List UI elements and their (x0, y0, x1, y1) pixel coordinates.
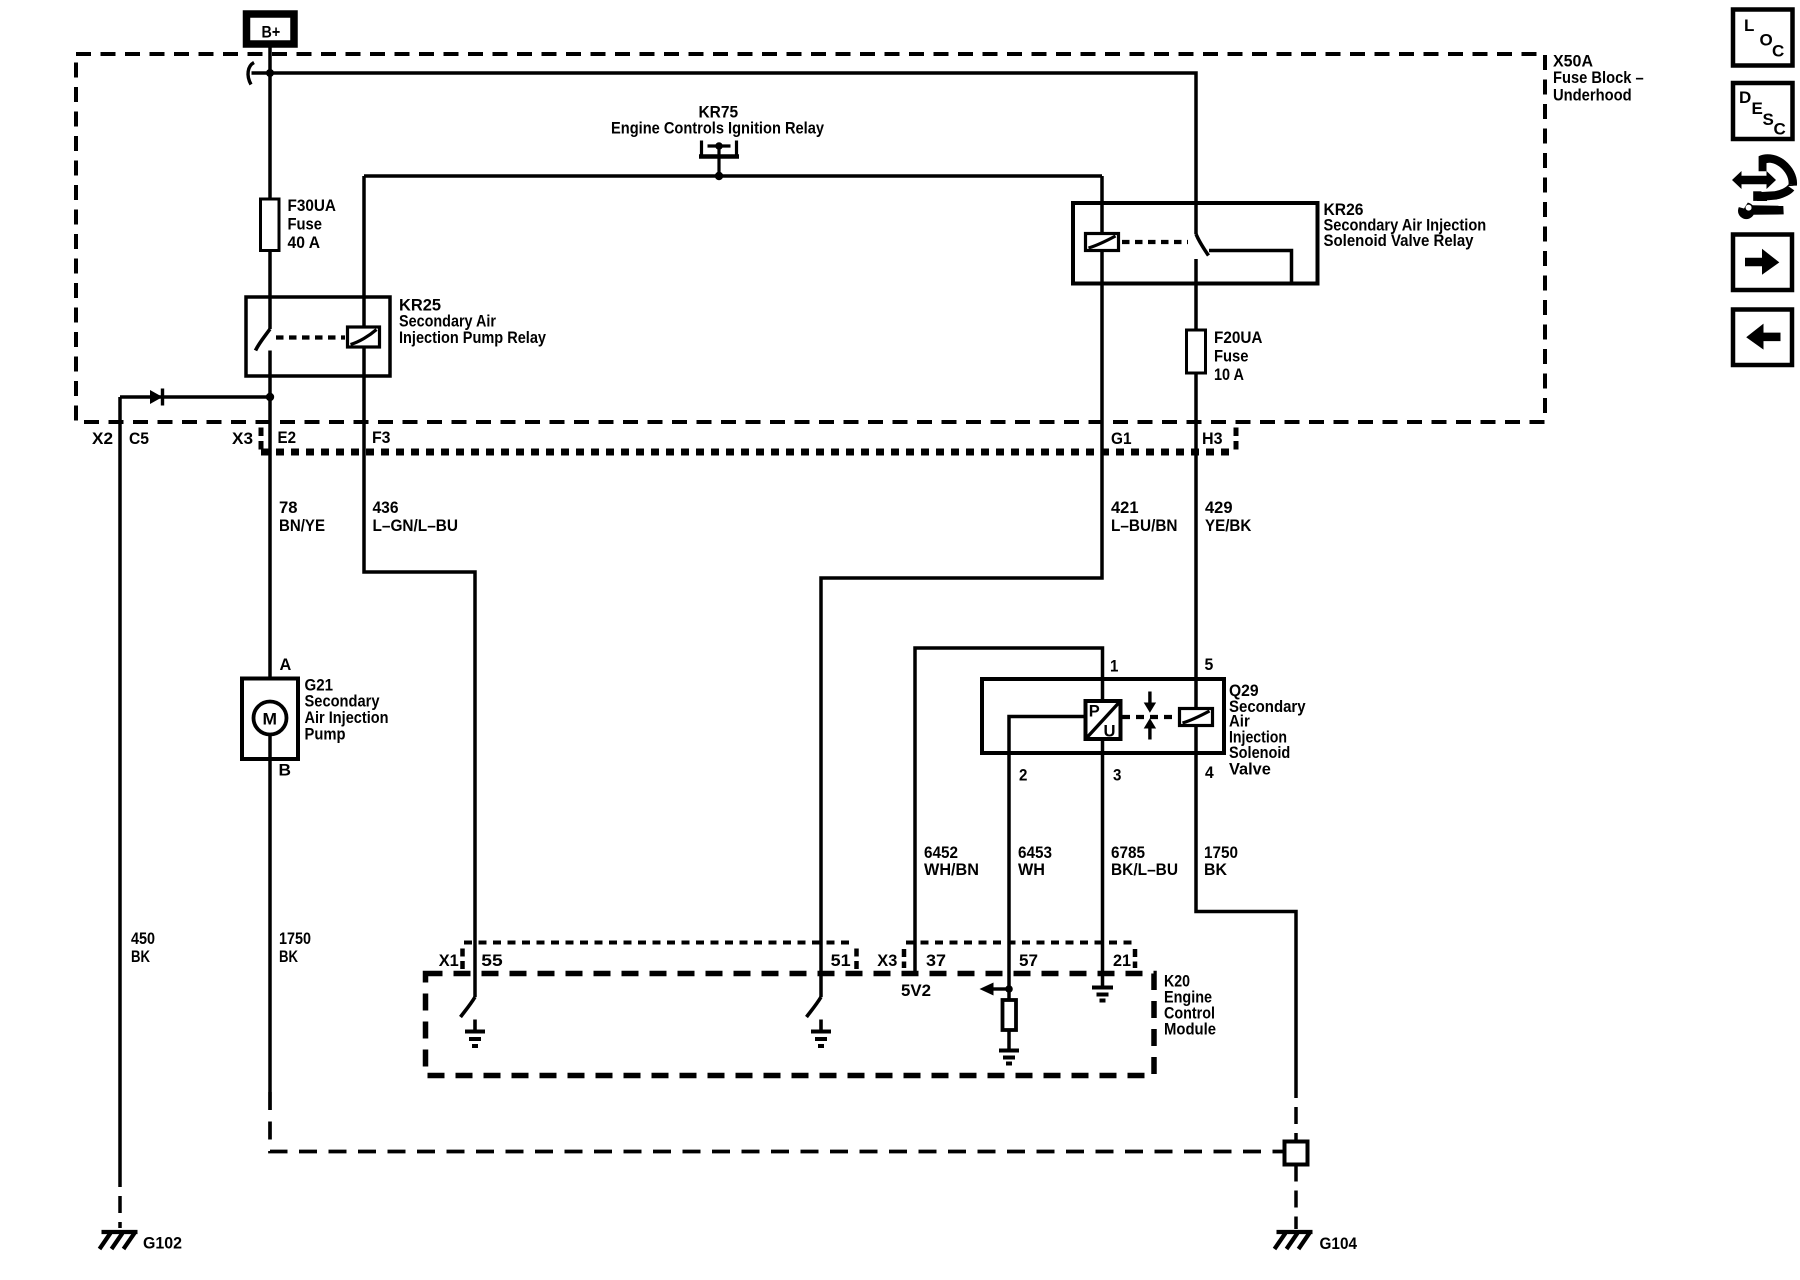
connector X1 end mark right (854, 949, 859, 971)
wire 1750 dashed to G104 square (270, 1092, 1285, 1152)
svg-text:B+: B+ (262, 23, 281, 42)
label K20 module name (1164, 972, 1216, 1039)
icon DESC box (1733, 83, 1793, 139)
label wire 6785 BK/L-BU (1111, 843, 1178, 879)
wire 6452 from ECM 37 to Q29 pin 1 (915, 648, 1103, 974)
svg-text:Pump: Pump (305, 725, 346, 744)
svg-text:L: L (1744, 16, 1754, 35)
node ECM pin 57 junction (1005, 985, 1013, 993)
label F30UA fuse (288, 196, 337, 252)
label P U driver (1089, 702, 1116, 741)
valve Q29 box (982, 679, 1224, 753)
svg-text:BK/L–BU: BK/L–BU (1111, 860, 1178, 879)
splice hook symbol (248, 63, 254, 85)
svg-text:C5: C5 (129, 429, 149, 448)
wire B+ bus to KR26 switch (252, 73, 1197, 234)
relay KR25 dashed actuation link (276, 335, 345, 339)
connector X3 dotted face (261, 449, 1232, 456)
svg-text:1750: 1750 (279, 929, 311, 948)
label wire 450 BK (131, 929, 155, 966)
fuse F30UA body (261, 199, 280, 251)
relay KR25 coil box (348, 327, 380, 347)
label wire 6453 WH (1018, 843, 1052, 879)
wire KR26 switch out through fuse F20UA (1194, 259, 1198, 330)
icon arrow right box (1733, 235, 1792, 291)
label wire 429 YE/BK (1205, 498, 1252, 535)
connector X3 ECM dotted face (906, 941, 1135, 945)
B+ terminal box (247, 14, 295, 44)
svg-text:L–GN/L–BU: L–GN/L–BU (373, 516, 459, 535)
wire KR25 switch out / 78 circuit to G21 (268, 351, 272, 680)
svg-text:1: 1 (1110, 657, 1118, 676)
relay KR25 box (246, 297, 390, 376)
svg-text:Engine Controls Ignition Relay: Engine Controls Ignition Relay (611, 119, 824, 138)
valve Q29 actuator arrows (1144, 692, 1156, 740)
ground ECM pin 51 (811, 1020, 831, 1047)
relay KR75 coil symbol (699, 141, 739, 177)
svg-text:Solenoid Valve Relay: Solenoid Valve Relay (1324, 231, 1474, 250)
svg-text:F3: F3 (372, 428, 391, 447)
switch ECM pin 55 blade (461, 997, 476, 1017)
wire G104 dashed drop lower (1294, 1165, 1298, 1230)
wire 429 YE/BK to Q29 pin 5 (1194, 373, 1198, 709)
svg-text:51: 51 (831, 951, 851, 970)
label KR25 relay name (399, 296, 546, 348)
label KR26 relay name (1324, 200, 1487, 250)
label wire 421 L-BU/BN (1111, 498, 1178, 535)
relay KR26 coil box (1086, 234, 1119, 251)
svg-text:X2: X2 (92, 429, 113, 448)
pump G21 motor circle (254, 702, 287, 735)
wire KR75 ignition bus (364, 174, 1102, 178)
svg-text:WH/BN: WH/BN (924, 860, 979, 879)
icon arrow left box (1733, 310, 1792, 366)
svg-text:Fuse: Fuse (1214, 347, 1249, 366)
svg-text:21: 21 (1113, 951, 1131, 970)
wire F30UA to KR25 switch (268, 251, 272, 330)
svg-text:U: U (1104, 722, 1116, 741)
connector X3 left end mark (259, 428, 264, 453)
label ECM connector pins (439, 951, 1131, 970)
svg-text:M: M (263, 710, 278, 729)
svg-text:37: 37 (926, 951, 946, 970)
icon harness routing (1732, 154, 1797, 219)
reference 5V2 arrow (980, 983, 1010, 996)
svg-text:BK: BK (279, 947, 299, 966)
wire KR26 coil out to G1 then jog to ECM 51 (821, 251, 1102, 998)
ground ECM pin 55 (465, 1020, 485, 1047)
svg-text:C: C (1774, 120, 1786, 139)
valve Q29 solenoid coil box (1180, 709, 1213, 726)
wire 450 BK dashed tail (118, 1170, 122, 1228)
svg-text:436: 436 (373, 498, 399, 517)
svg-text:Valve: Valve (1229, 760, 1271, 779)
svg-text:G1: G1 (1111, 429, 1132, 448)
wire G104 dashed drop upper (1294, 1081, 1298, 1142)
svg-text:Module: Module (1164, 1020, 1216, 1039)
connector X3 ECM end mark right (1133, 949, 1138, 968)
svg-text:E2: E2 (278, 428, 297, 447)
label wire 1750 BK left (279, 929, 311, 966)
svg-text:450: 450 (131, 929, 155, 948)
connector square to G104 (1285, 1142, 1308, 1165)
resistor R in ECM (1003, 989, 1017, 1049)
label connector pins X3 E2 F3 G1 H3 (232, 428, 1223, 448)
svg-text:WH: WH (1018, 860, 1045, 879)
svg-text:78: 78 (279, 498, 298, 517)
relay KR26 box (1073, 203, 1318, 284)
label wire 6452 WH/BN (924, 843, 979, 879)
svg-text:L–BU/BN: L–BU/BN (1111, 516, 1178, 535)
svg-text:BN/YE: BN/YE (279, 516, 325, 535)
label Q29 valve name (1229, 681, 1306, 779)
svg-text:10 A: 10 A (1214, 365, 1244, 384)
relay KR26 switch blade (1196, 234, 1209, 256)
svg-text:S: S (1763, 110, 1774, 129)
svg-text:5: 5 (1205, 655, 1214, 674)
wire B+ down to fuse F30UA (268, 48, 272, 200)
svg-text:Underhood: Underhood (1553, 86, 1632, 105)
wire bus drop to KR26 coil (1100, 176, 1104, 234)
svg-text:G102: G102 (143, 1234, 182, 1253)
svg-text:X3: X3 (232, 429, 253, 448)
connector X1 dotted face (464, 941, 855, 945)
label wire 1750 BK right (1204, 843, 1238, 879)
svg-text:X3: X3 (877, 951, 897, 970)
label connector pins X2 C5 (92, 429, 149, 448)
svg-text:D: D (1739, 88, 1751, 107)
wire Q29 pin 2 internal (1009, 717, 1086, 990)
svg-text:P: P (1089, 702, 1100, 721)
svg-text:57: 57 (1019, 951, 1038, 970)
svg-text:BK: BK (131, 947, 151, 966)
svg-text:X1: X1 (439, 951, 459, 970)
node diode junction (266, 393, 274, 401)
label KR75 relay name (611, 103, 824, 138)
svg-text:F20UA: F20UA (1214, 328, 1263, 347)
valve Q29 P/U driver box (1086, 701, 1121, 739)
svg-text:H3: H3 (1202, 429, 1223, 448)
svg-text:3: 3 (1113, 765, 1121, 784)
wire 450 BK down left side (118, 397, 122, 1170)
label Q29 pin numbers (1019, 655, 1214, 784)
connector X3 right end mark (1234, 428, 1239, 453)
node splice junction on B+ wire (266, 69, 274, 77)
ground ECM below resistor (999, 1051, 1019, 1064)
node KR75 bus junction (715, 172, 723, 180)
svg-text:5V2: 5V2 (901, 981, 931, 1000)
svg-text:G104: G104 (1320, 1234, 1358, 1253)
pump G21 box (242, 679, 298, 760)
label wire 436 L-GN/L-BU (373, 498, 459, 535)
ground G102 symbol (100, 1232, 138, 1249)
svg-text:40 A: 40 A (288, 233, 321, 252)
svg-text:C: C (1772, 41, 1784, 60)
ground ECM pin 21 (1092, 988, 1113, 1001)
svg-text:YE/BK: YE/BK (1205, 516, 1252, 535)
label G21 pump name (305, 675, 389, 743)
wire Q29 pin 4 to G104 (1196, 726, 1296, 1082)
svg-text:B: B (279, 761, 292, 780)
fuse block X50A dashed border (76, 54, 1545, 422)
label F20UA fuse (1214, 328, 1263, 384)
svg-text:A: A (280, 655, 292, 674)
label X50A fuse block (1553, 51, 1644, 104)
relay KR26 fixed contact to box edge (1209, 251, 1292, 284)
svg-text:Fuse: Fuse (288, 215, 323, 234)
svg-text:Injection Pump Relay: Injection Pump Relay (399, 328, 546, 347)
diode D1 (120, 389, 270, 406)
module K20 dashed box (426, 974, 1155, 1076)
switch ECM pin 51 blade (807, 997, 822, 1017)
wire bus drop to KR25 coil (362, 176, 366, 327)
icon LOC box (1733, 10, 1793, 66)
relay KR26 dashed actuation link (1122, 240, 1188, 244)
connector X3 ECM end mark left (902, 949, 907, 968)
svg-text:O: O (1760, 30, 1773, 49)
svg-text:E: E (1752, 99, 1763, 118)
svg-text:55: 55 (481, 951, 502, 970)
relay KR25 switch blade (256, 329, 271, 351)
svg-text:4: 4 (1205, 763, 1214, 782)
wire KR25 coil out to F3 then jog to ECM 55 (364, 347, 475, 997)
ground G104 symbol (1275, 1232, 1313, 1249)
fuse F20UA body (1187, 330, 1206, 373)
wire G21 pin B down (268, 735, 272, 1093)
svg-text:429: 429 (1205, 498, 1233, 517)
svg-text:2: 2 (1019, 765, 1027, 784)
wire Q29 pin 3 to ECM 21 (1101, 739, 1105, 986)
svg-text:421: 421 (1111, 498, 1139, 517)
valve Q29 dashed link (1122, 715, 1178, 719)
svg-text:Fuse Block –: Fuse Block – (1553, 68, 1644, 87)
svg-text:F30UA: F30UA (288, 196, 337, 215)
connector X1 end mark left (460, 949, 465, 971)
label wire 78 BN/YE (279, 498, 325, 535)
svg-text:BK: BK (1204, 860, 1228, 879)
